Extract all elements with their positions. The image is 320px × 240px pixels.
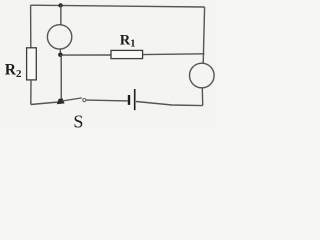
node top junction: [58, 3, 62, 7]
switch lever: [62, 98, 82, 101]
node mid junction: [58, 53, 63, 58]
svg-text:S: S: [73, 111, 83, 129]
wire branch top (junction to ammeter): [60, 5, 62, 24]
wire right vertical lower: [201, 88, 203, 106]
resistor R1: [111, 50, 143, 58]
resistor R2: [27, 48, 37, 80]
wire branch vertical (node to switch): [60, 55, 62, 99]
wire left vertical lower: [30, 80, 32, 105]
wire left vertical upper: [30, 5, 32, 48]
wire R1 left: [62, 54, 111, 56]
wire right vertical upper: [203, 7, 204, 63]
node switch pivot: [57, 98, 65, 104]
paper background: [0, 0, 217, 129]
wire battery to switch: [86, 99, 128, 102]
wire top horizontal: [31, 5, 205, 7]
wire bottom left: [31, 102, 59, 105]
battery plate long: [134, 89, 136, 110]
switch contact: [83, 99, 86, 102]
wire bottom right: [136, 102, 203, 106]
wire R1 right: [143, 53, 205, 56]
wire ammeter bottom to node: [59, 49, 61, 55]
meter V (right circle): [190, 63, 215, 88]
battery plate short: [128, 95, 130, 105]
meter A (upper circle): [47, 25, 71, 49]
